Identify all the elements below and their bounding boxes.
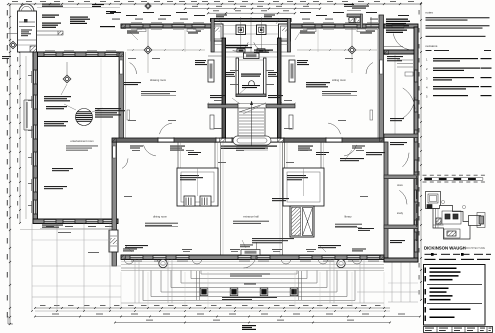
pantry door arc bbox=[393, 34, 410, 50]
window dim line west wall bbox=[25, 56, 27, 219]
NE dense block bbox=[386, 19, 408, 20]
annotation left of sitting room bbox=[306, 82, 330, 83]
wall stub right of porch bbox=[37, 34, 58, 36]
door sitting room to east wing bbox=[380, 60, 383, 74]
column centre lines bbox=[240, 17, 242, 52]
extension lines building to dims bbox=[120, 272, 122, 307]
door swings east wing bbox=[403, 97, 415, 118]
radiator symbols in core bbox=[210, 115, 214, 129]
svg-text:entertainment room: entertainment room bbox=[70, 139, 94, 143]
portico corner pier west bbox=[211, 24, 223, 41]
balloon annotation bbox=[95, 108, 121, 109]
right terrace steps under east wing bbox=[391, 262, 393, 302]
middle spine wall bbox=[112, 138, 384, 142]
loggia edge lines bbox=[121, 267, 384, 269]
top dimension string bbox=[8, 3, 421, 5]
hall dimension line bbox=[208, 103, 295, 105]
grid marker west wing bbox=[63, 75, 71, 83]
door swings spine wall bbox=[144, 145, 156, 156]
room dim line left bbox=[127, 49, 144, 51]
annotation under stair bbox=[221, 146, 277, 147]
bay side walls bbox=[211, 19, 214, 53]
north wall left segment bbox=[121, 24, 211, 28]
site address bbox=[430, 288, 449, 290]
right dimension line bbox=[420, 3, 422, 300]
porch railings bbox=[196, 271, 198, 300]
entrance mat portico bbox=[244, 53, 260, 59]
scale note bottom centre bbox=[242, 325, 256, 326]
east fireplace block bbox=[283, 168, 324, 206]
loggia columns bbox=[159, 259, 167, 267]
site location plan bbox=[426, 192, 486, 240]
bottom strip bbox=[424, 327, 493, 333]
svg-text:library: library bbox=[344, 215, 352, 219]
vestibule bottom wall bbox=[236, 94, 266, 97]
vertical text left of site plan bbox=[416, 176, 417, 185]
grid marker drawing room bbox=[144, 46, 152, 54]
annotation blocks top-left outside bbox=[42, 4, 60, 5]
outer sill marks north walls bbox=[131, 22, 142, 24]
north wall right segment bbox=[291, 24, 385, 28]
hall north line bbox=[226, 56, 277, 58]
stair break line bbox=[239, 104, 264, 112]
ceiling beam line west wing bbox=[100, 58, 102, 218]
svg-text:drawing room: drawing room bbox=[150, 78, 167, 82]
entrance door arc bbox=[244, 256, 257, 268]
terrace bottom dim ticks bbox=[31, 310, 33, 312]
entablature lines bbox=[223, 25, 279, 27]
grid marker sitting room bbox=[348, 46, 356, 54]
entrance steps bbox=[201, 273, 297, 275]
vestibule arched door mark bbox=[249, 81, 255, 84]
east wall of sitting room bbox=[379, 15, 384, 138]
contact row 1 bbox=[425, 254, 432, 255]
scattered inner dimension bars bbox=[128, 57, 136, 60]
column feet bbox=[237, 49, 245, 52]
lift shaft hatched bbox=[290, 206, 314, 237]
text under stair podium bbox=[236, 148, 268, 149]
east wing east wall bbox=[414, 27, 418, 262]
contact row 2 bbox=[425, 259, 436, 260]
west fireplace block bbox=[177, 168, 218, 206]
grid bubble left bbox=[9, 41, 17, 49]
line above west wing bbox=[37, 7, 120, 9]
bow window west wall bbox=[24, 99, 33, 101]
porch fixture bbox=[24, 19, 28, 23]
wall fixtures upper rooms bbox=[137, 29, 146, 32]
west wall of dining room bbox=[112, 142, 117, 266]
scale bar bbox=[425, 178, 432, 180]
porch column bases bbox=[200, 288, 208, 296]
west wing north wall bbox=[33, 52, 123, 57]
step centre annotations bbox=[230, 274, 270, 275]
svg-text:sitting room: sitting room bbox=[332, 78, 347, 82]
NE chimney breast jog bbox=[347, 14, 361, 17]
portico door arcs bbox=[233, 42, 249, 51]
portico threshold lines bbox=[214, 44, 288, 46]
top grid diamond bbox=[145, 3, 151, 9]
SW corner marks bbox=[123, 249, 137, 250]
vestibule texts bbox=[241, 74, 261, 75]
north-west porch bbox=[18, 11, 37, 52]
NW corner wing hatch bbox=[119, 52, 124, 57]
stair hall crossing wall bbox=[208, 105, 238, 108]
portico column west bbox=[236, 25, 246, 35]
svg-text:dining room: dining room bbox=[153, 215, 168, 219]
top secondary dims over portico bbox=[185, 8, 320, 10]
left margin bracket bottom bbox=[7, 316, 9, 324]
east wall lower segment bbox=[384, 142, 388, 258]
south wall west wing bbox=[33, 219, 118, 224]
svg-text:store: store bbox=[397, 183, 403, 187]
staircase bbox=[238, 108, 265, 136]
chimney dining west wall bbox=[109, 230, 118, 252]
annotation below hall bbox=[252, 238, 294, 239]
vestibule between portico and stair bbox=[236, 58, 239, 96]
annotations below spine wall bbox=[170, 146, 185, 147]
annotations beside vestibule bbox=[226, 72, 235, 73]
client address bbox=[430, 268, 457, 270]
east wing dividers bbox=[384, 134, 418, 138]
west wall of west wing bbox=[33, 52, 38, 223]
south wall centre block bbox=[121, 255, 384, 260]
arched niches on south facade bbox=[125, 260, 134, 265]
porch labels bbox=[21, 30, 32, 31]
notes para 2 bbox=[426, 25, 490, 26]
left terrace paving bbox=[31, 224, 33, 312]
east wing south wall bbox=[384, 258, 418, 262]
portico corner pier east bbox=[279, 24, 291, 41]
annotation west wing left column bbox=[44, 96, 71, 97]
side step stacks bbox=[134, 260, 136, 304]
svg-text:notes: notes bbox=[426, 11, 434, 15]
svg-text:revisions: revisions bbox=[426, 44, 438, 48]
door opening dining west bbox=[113, 146, 116, 158]
stair hall side walls bbox=[222, 38, 226, 138]
annotations mid right bbox=[390, 118, 404, 119]
room dim line right bbox=[297, 49, 348, 51]
svg-text:entrance hall: entrance hall bbox=[243, 215, 259, 219]
left dimension string bbox=[9, 5, 11, 324]
leader lines scattered bbox=[130, 32, 138, 40]
svg-text:study: study bbox=[397, 211, 404, 215]
east wing divider at y50 bbox=[384, 50, 418, 54]
stair bullnose podium bbox=[233, 136, 271, 145]
svg-text:DICKINSON WAUGH: DICKINSON WAUGH bbox=[424, 246, 466, 251]
notes para 1 bbox=[426, 17, 490, 18]
notes para 3 bbox=[426, 36, 486, 37]
east wing corridor shelves bbox=[397, 59, 413, 61]
bottom dimension strings bbox=[35, 307, 390, 309]
side tabs bbox=[425, 268, 427, 274]
drawing title bbox=[430, 309, 471, 311]
window dims below wing south wall bbox=[46, 225, 54, 228]
door west wing to drawing room bbox=[120, 60, 123, 74]
detail balloon hatched bbox=[76, 109, 93, 126]
entrance hall side walls bbox=[220, 143, 222, 256]
bow window arc porch bbox=[19, 4, 34, 11]
tiny labels above north walls bbox=[110, 12, 121, 13]
west fireplace neck walls bbox=[177, 143, 179, 169]
title block box bbox=[424, 265, 486, 326]
porch corner hatch bbox=[30, 46, 37, 52]
stair up line bbox=[251, 101, 253, 146]
east wall of west wing bbox=[119, 52, 124, 142]
left inner dimension line bbox=[19, 52, 21, 223]
svg-text:ARCHITECTURE: ARCHITECTURE bbox=[466, 247, 486, 250]
portico column east bbox=[257, 25, 267, 35]
piers flanking core bbox=[208, 60, 214, 82]
site plan small trees bbox=[441, 200, 444, 203]
east wing north wall top bbox=[384, 24, 418, 28]
stair hall annotations bbox=[226, 45, 248, 46]
portico bay front wall bbox=[211, 19, 292, 22]
east wing corridor line bbox=[394, 54, 396, 134]
walkway line bbox=[121, 264, 384, 266]
